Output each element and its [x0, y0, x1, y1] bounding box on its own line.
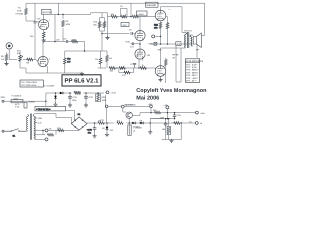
diode D5 vertical	[54, 95, 57, 100]
svg-text:2xECC83: 2xECC83	[42, 11, 52, 14]
wire V4 side drop	[165, 74, 167, 84]
wire R36 stubs	[168, 119, 170, 140]
transformer OT secondary	[190, 35, 192, 46]
wire Q1 to bias line	[128, 118, 130, 123]
wire bias top row y112.6	[140, 112, 196, 114]
terminal Q1 gate	[121, 105, 124, 108]
node dot d	[138, 67, 140, 69]
box measure table	[185, 59, 199, 83]
wire OT sec to speaker	[191, 35, 193, 46]
wire drop x181	[180, 123, 182, 140]
capacitor C31 filter	[68, 95, 72, 100]
svg-text:R28 2W: R28 2W	[74, 91, 82, 94]
wire V1a plate up	[43, 14, 45, 19]
resistor R11b	[103, 21, 106, 28]
wire coupling line y41.5	[43, 41, 71, 43]
wire V4 grid	[154, 68, 156, 71]
transistor Q1	[126, 112, 132, 118]
ground D5	[53, 103, 57, 107]
box TR5 note	[35, 106, 66, 111]
wire tap heater1	[34, 129, 79, 131]
transformer TR primary	[26, 115, 28, 131]
box label 2x6L6GC	[146, 2, 159, 7]
svg-text:± 0mV: ± 0mV	[137, 13, 144, 16]
ground C33	[93, 134, 97, 138]
svg-text:TP2 : 6,3V~: TP2 : 6,3V~	[186, 66, 198, 69]
resistor R24	[166, 22, 169, 29]
wire Q1 gate	[123, 108, 126, 112]
svg-text:TP3 : 395V=: TP3 : 395V=	[186, 69, 199, 72]
wire grid line PI	[102, 33, 130, 35]
wire coupling corner to y51	[65, 42, 107, 52]
wire V1b plate up	[42, 42, 44, 58]
node dot h	[69, 92, 71, 94]
ground x150	[148, 130, 152, 134]
resistor R37	[173, 122, 180, 125]
wire C5 to grid	[133, 33, 135, 35]
resistor R3 plate load	[62, 20, 65, 27]
wire V2a to V2b link	[139, 41, 141, 49]
svg-text:4R: 4R	[172, 56, 175, 59]
svg-text:6: 6	[49, 58, 50, 61]
svg-text:+C33: +C33	[87, 129, 93, 132]
ground C31	[68, 103, 72, 107]
wire bias row	[98, 67, 156, 69]
svg-text:2x6L6GC: 2x6L6GC	[146, 4, 156, 7]
tube V2a PI	[135, 30, 145, 40]
capacitor C5 coupling PI	[131, 32, 133, 35]
node row41	[54, 41, 56, 43]
capacitor C32 filter	[84, 95, 88, 100]
svg-text:TR-OUT: TR-OUT	[184, 30, 193, 33]
resistor R35	[154, 111, 161, 114]
svg-text:1M: 1M	[1, 58, 4, 61]
jack J1	[6, 43, 12, 49]
tube V1a	[39, 20, 49, 30]
resistor R19	[109, 67, 116, 70]
wire fuse to x46	[23, 93, 46, 106]
wire P1 bypass loop	[121, 8, 128, 16]
ground V4	[158, 78, 162, 82]
node dot k2	[106, 122, 108, 124]
node dot f	[160, 43, 162, 45]
node dot p1b	[130, 16, 132, 18]
resistor R21	[140, 67, 147, 70]
wire pot to R6	[25, 59, 27, 61]
diode D7	[131, 122, 136, 125]
wire C36	[165, 119, 167, 140]
tube V3 6L6 top	[155, 10, 166, 21]
wire V4 cathode	[160, 76, 162, 78]
wire heater line	[106, 95, 150, 106]
trimmer P3 bias in box	[128, 125, 131, 135]
svg-text:ALIM.MESURES: ALIM.MESURES	[186, 60, 204, 63]
node dot n	[174, 112, 176, 114]
svg-text:PP 6L6 V2.1: PP 6L6 V2.1	[65, 78, 100, 85]
capacitor C30	[131, 42, 134, 45]
terminal bias out1	[196, 111, 199, 114]
resistor R8 divider	[99, 58, 102, 65]
terminal heater b	[45, 138, 48, 141]
transformer OT primary	[185, 33, 187, 48]
speaker HP	[193, 33, 201, 48]
node tap heater	[42, 130, 44, 132]
box TP small	[154, 42, 157, 45]
wire B+ right drop	[201, 3, 204, 35]
node dot c36	[165, 118, 167, 120]
wire D7-D8	[136, 122, 139, 124]
resistor R4 coupling	[71, 40, 78, 43]
resistor R33	[117, 122, 124, 125]
wire R30 top	[97, 93, 99, 94]
wire D5 down	[55, 93, 57, 103]
resistor R1 input	[25, 8, 28, 15]
node dot j	[97, 92, 99, 94]
wire mains to fuse	[4, 100, 11, 102]
svg-text:HP 8R: HP 8R	[172, 53, 179, 56]
diode D8	[139, 122, 144, 125]
resistor RH1 on heater feed	[57, 129, 64, 132]
svg-text:1M: 1M	[95, 58, 98, 61]
wire R37 right	[172, 122, 195, 124]
resistor R20 parallel	[124, 71, 131, 74]
wire pot stubs	[20, 52, 26, 73]
node dot g	[167, 43, 169, 45]
svg-text:= TR 5 6V 2A =: = TR 5 6V 2A =	[36, 108, 51, 111]
svg-text:= 6,3V: = 6,3V	[110, 92, 117, 95]
ground V1a cathode	[42, 38, 46, 42]
resistor RH2 humdinger	[47, 134, 54, 137]
svg-text:Q1 IRF820: Q1 IRF820	[125, 104, 136, 107]
resistor R36 in box	[167, 126, 170, 134]
tube V4 6L6 bottom	[155, 66, 166, 77]
bridge diamond	[71, 117, 87, 130]
wire V2 cathodes	[139, 59, 143, 68]
svg-text:+C30: +C30	[125, 41, 131, 44]
wire second rail y14.4	[51, 13, 108, 15]
wire C30 stub	[134, 43, 140, 45]
terminal heater d	[150, 105, 153, 108]
trimmer P2 balance	[119, 67, 126, 70]
resistor R32	[98, 122, 105, 125]
node dot m	[167, 112, 169, 114]
terminal bias out2	[195, 122, 198, 125]
resistor R2 cathode	[42, 32, 45, 39]
svg-text:250V: 250V	[14, 97, 19, 100]
trimmer P1	[120, 15, 127, 18]
wire tap mid link	[34, 130, 56, 134]
terminal heater a	[45, 129, 48, 132]
node dot m2	[167, 118, 169, 120]
svg-text:TP7 : 0V =: TP7 : 0V =	[186, 80, 197, 83]
wire C31	[69, 93, 71, 104]
wire tap 230 stub	[34, 117, 37, 119]
wire V1b cathode	[46, 65, 48, 73]
terminal heater top	[106, 91, 109, 94]
node fuse	[45, 100, 47, 102]
node dot x150	[149, 122, 151, 124]
wire R9 stubs	[106, 51, 108, 68]
node dot D5	[55, 92, 57, 94]
wire x55 drop to coupling	[54, 14, 56, 41]
wire V1a cathode	[43, 30, 45, 32]
ground zener	[105, 133, 109, 137]
resistor R22 cathode	[159, 22, 162, 29]
fuse F1	[11, 100, 23, 103]
svg-text:ACS: ACS	[15, 103, 20, 106]
transformer TR core	[30, 114, 31, 140]
wire R5 stubs	[6, 53, 8, 64]
node dot k3	[128, 122, 130, 124]
node dot k	[94, 122, 96, 124]
wire heater stub	[105, 91, 106, 93]
wire P3	[129, 123, 131, 125]
svg-text:CH 6dB: CH 6dB	[16, 13, 24, 16]
wire C33	[94, 123, 96, 135]
wire tap 6.3b	[34, 138, 45, 140]
svg-text:= 1N4007: = 1N4007	[133, 127, 143, 130]
potentiometer RV1 volume	[19, 55, 22, 62]
node dot e	[116, 67, 118, 69]
terminal mains N	[2, 130, 4, 132]
capacitor C35 between rows	[173, 113, 177, 118]
wire TP to cathode	[155, 35, 161, 37]
wire D8 right	[144, 119, 172, 123]
svg-text:1W: 1W	[101, 24, 104, 27]
wire resistor R1 bottom jog	[26, 3, 35, 21]
wire switch to primary	[26, 130, 28, 132]
wire R22 down	[160, 29, 162, 44]
svg-text:1M: 1M	[109, 57, 112, 60]
wire speaker feedback	[196, 44, 198, 57]
svg-text:TP1 : 6,3V~: TP1 : 6,3V~	[186, 63, 198, 66]
op box ECC83 label	[42, 10, 52, 15]
wire R25 to tube	[164, 58, 166, 69]
wire bottom rail	[162, 139, 182, 141]
resistor R9 divider	[106, 55, 109, 62]
wire V3 cathode	[160, 21, 162, 22]
node y51	[84, 50, 86, 52]
box bias label	[121, 23, 129, 27]
zener D9	[106, 126, 109, 131]
svg-text:CTN: CTN	[15, 106, 20, 109]
wire row y16.6	[108, 16, 156, 17]
svg-text:Mai 2006: Mai 2006	[136, 95, 159, 101]
svg-text:F1 500mA: F1 500mA	[12, 95, 22, 98]
thermistor CTN	[24, 103, 27, 109]
terminal bias B	[166, 106, 169, 109]
resistor R10	[111, 15, 118, 18]
box label mV	[137, 11, 148, 16]
wire x107.5 drop	[107, 13, 109, 37]
ground rail symbol	[80, 72, 84, 76]
terminal mains L	[2, 100, 4, 102]
tube V1b	[38, 56, 48, 66]
transformer TR secondary	[33, 115, 35, 140]
diode D6	[59, 92, 64, 95]
svg-text:TP5 : 48V =: TP5 : 48V =	[186, 74, 198, 77]
wire bridge out	[87, 122, 131, 124]
wire R24 stubs	[166, 17, 168, 44]
wire V3 plate to OT	[161, 7, 186, 33]
wire rail drop x58	[57, 3, 59, 14]
wire ground rail y73	[26, 72, 82, 74]
svg-text:TP6 : -35V=: TP6 : -35V=	[186, 77, 198, 80]
wire vertical x150	[149, 119, 151, 131]
wire JP8 to OT	[181, 43, 191, 45]
box transfo note	[20, 80, 43, 87]
node dot o	[174, 118, 176, 120]
svg-text:1: 1	[49, 19, 50, 22]
svg-text:2 x 1N4007: 2 x 1N4007	[44, 85, 55, 88]
node dot a	[58, 14, 60, 16]
node dot rA	[150, 112, 152, 114]
tube V2b PI	[135, 49, 145, 59]
resistor R30 bleeder in box	[96, 94, 101, 102]
node dot i	[85, 92, 87, 94]
wire tap HV	[34, 114, 71, 124]
riser R-pair	[100, 13, 105, 51]
resistor R28	[74, 92, 81, 95]
wire parallel links	[119, 68, 134, 73]
wire V2a plate up	[139, 17, 141, 30]
wire x131 to top rail	[130, 3, 132, 17]
node dot tp	[160, 36, 162, 38]
wire top B+ rail	[26, 2, 205, 4]
resistor R6 grid stopper	[26, 58, 33, 61]
ground R5	[4, 62, 8, 66]
switch S1	[4, 129, 26, 132]
resistor R11a	[98, 21, 101, 28]
svg-text:Copyleft Yves Monmagnon: Copyleft Yves Monmagnon	[136, 88, 207, 94]
wire bias row2 y118.6	[150, 118, 174, 120]
box JP8	[176, 42, 181, 46]
svg-text:1N4007: 1N4007	[28, 101, 36, 104]
capacitor C33	[93, 126, 97, 131]
wire jack down	[9, 49, 17, 59]
svg-text:TP4 : 385V=: TP4 : 385V=	[186, 71, 199, 74]
wire zener	[106, 123, 108, 133]
svg-text:1W: 1W	[67, 61, 70, 64]
bridge diode marks	[75, 120, 84, 128]
ground C32	[84, 103, 88, 107]
resistor R12	[132, 15, 139, 18]
ground bias bottom	[169, 139, 173, 143]
wire loop x176	[176, 46, 181, 82]
wire V4 plate to OT bottom	[161, 48, 186, 66]
terminal heater c	[105, 105, 108, 108]
wire R8 stubs	[100, 51, 102, 68]
transformer OT core	[188, 32, 189, 48]
svg-text:+C32: +C32	[88, 96, 94, 99]
capacitor C36	[164, 122, 168, 127]
capacitor C2 coupling	[66, 40, 68, 43]
svg-text:-32V: -32V	[122, 24, 127, 27]
svg-text:+375v: +375v	[148, 42, 155, 45]
wire C35	[174, 113, 176, 119]
wire R13 stubs	[64, 51, 66, 73]
wire TR5 to bridge top	[66, 111, 75, 121]
wire row y44	[150, 43, 176, 45]
resistor R25 screen V4	[165, 59, 168, 66]
wire C32	[85, 93, 87, 104]
svg-text:+C31: +C31	[72, 96, 78, 99]
wire row1 to Q1	[132, 113, 140, 116]
svg-text:TR 1 230V PRIM: TR 1 230V PRIM	[21, 81, 37, 84]
box title PP 6L6	[62, 75, 101, 86]
svg-text:TR 2 230V 50VA: TR 2 230V 50VA	[21, 84, 37, 87]
capacitor C11 cathode	[133, 63, 136, 68]
resistor R13 divider low	[64, 58, 67, 65]
wire heater term B drop	[150, 108, 152, 113]
wire input coupling vertical	[34, 3, 36, 59]
node dot b	[62, 14, 64, 16]
wire R3 stubs	[62, 14, 64, 41]
terminal TP cathode	[152, 35, 155, 38]
node dot r36	[168, 118, 170, 120]
wire tap 63 stub	[34, 122, 37, 124]
node dot srpp	[139, 43, 141, 45]
capacitor C9 marks on x35	[34, 22, 37, 24]
resistor R5 grid	[5, 54, 8, 61]
ground x107.5	[105, 36, 109, 40]
wire term B down	[166, 109, 168, 119]
wire R6 to V1b grid	[33, 60, 38, 62]
wire heater term drop	[106, 108, 108, 123]
wire B+ rail y93	[46, 92, 104, 94]
